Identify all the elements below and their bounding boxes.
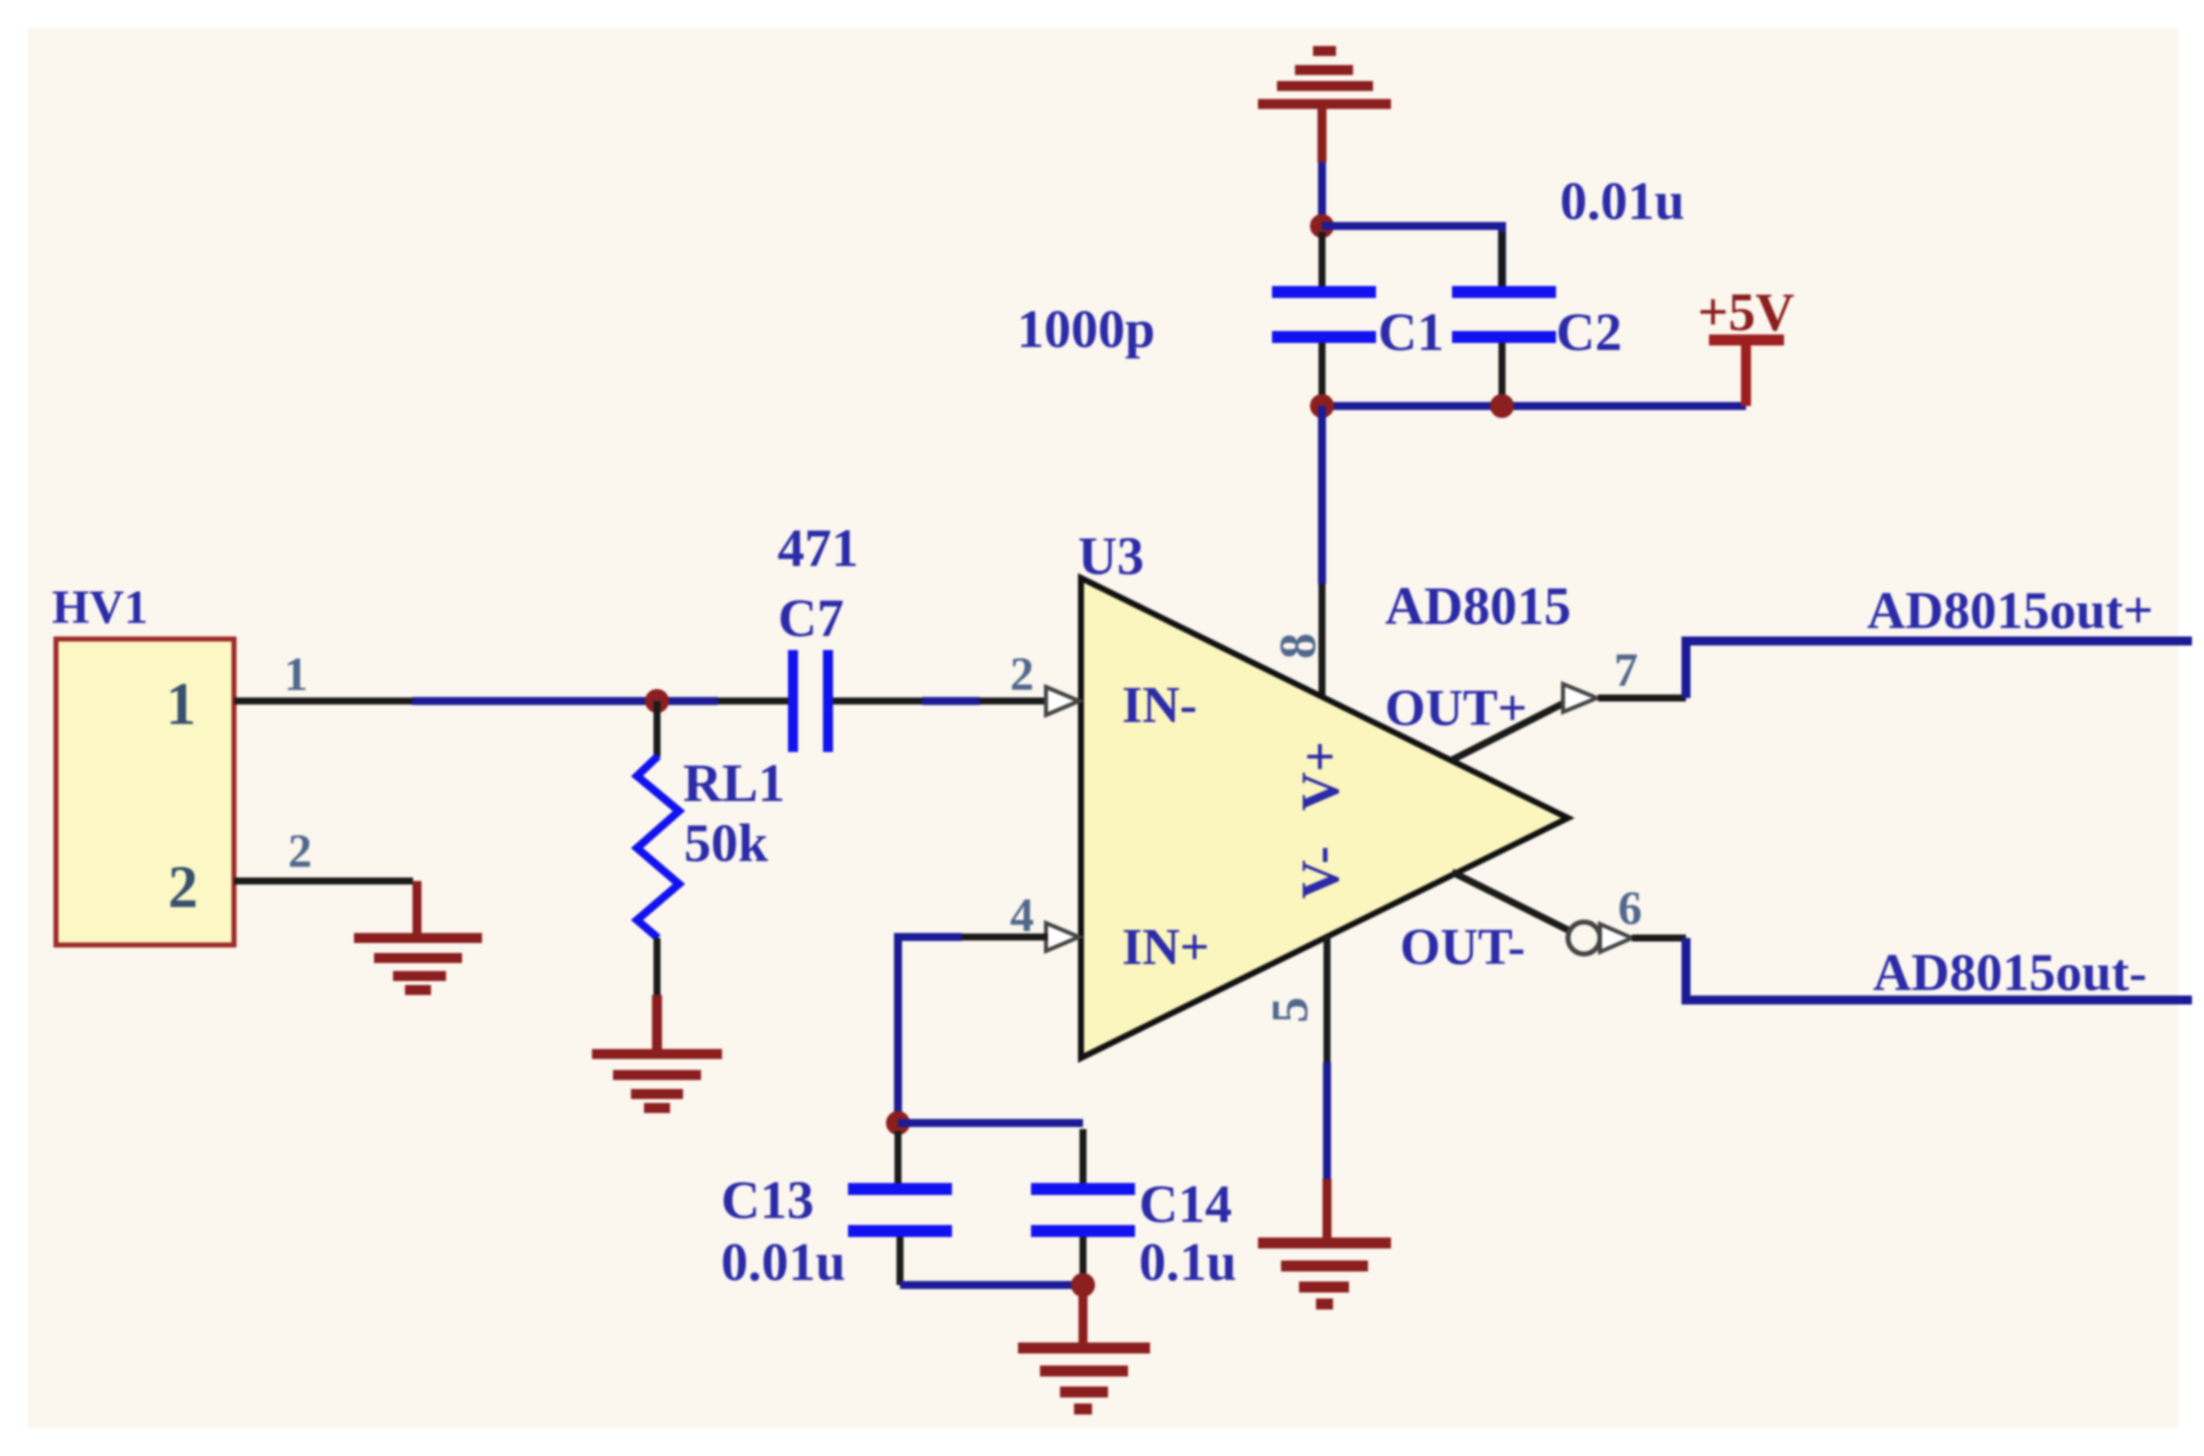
svg-text:2: 2 [1010,648,1034,701]
svg-text:V+: V+ [1290,741,1350,811]
svg-text:0.01u: 0.01u [721,1232,846,1292]
svg-text:OUT-: OUT- [1400,919,1525,976]
svg-text:1000p: 1000p [1017,299,1155,359]
svg-text:0.01u: 0.01u [1560,171,1685,231]
svg-text:0.1u: 0.1u [1139,1232,1237,1292]
svg-text:AD8015out+: AD8015out+ [1867,582,2153,640]
svg-text:50k: 50k [684,813,768,873]
svg-text:HV1: HV1 [52,581,148,634]
svg-text:C7: C7 [778,588,844,648]
svg-text:1: 1 [284,648,308,701]
svg-text:7: 7 [1614,644,1638,697]
svg-text:8: 8 [1270,633,1327,659]
svg-text:RL1: RL1 [683,753,785,813]
svg-text:C1: C1 [1378,302,1444,362]
svg-text:AD8015out-: AD8015out- [1873,944,2147,1002]
svg-text:2: 2 [288,825,312,878]
svg-text:U3: U3 [1078,526,1144,586]
svg-text:IN+: IN+ [1122,919,1209,976]
svg-text:2: 2 [168,854,198,920]
svg-text:+5V: +5V [1698,282,1795,342]
svg-text:471: 471 [778,518,859,578]
svg-text:AD8015: AD8015 [1385,576,1571,636]
svg-text:C13: C13 [721,1170,814,1230]
svg-text:V-: V- [1290,846,1350,899]
svg-text:C2: C2 [1556,302,1622,362]
svg-text:6: 6 [1618,882,1642,935]
svg-text:5: 5 [1262,997,1319,1023]
svg-text:C14: C14 [1139,1174,1232,1234]
svg-text:1: 1 [166,671,196,737]
svg-text:IN-: IN- [1122,677,1197,734]
svg-text:OUT+: OUT+ [1385,680,1527,737]
